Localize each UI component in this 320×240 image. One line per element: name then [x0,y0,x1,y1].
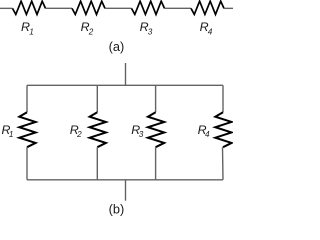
label R4 (parallel) [198,123,210,139]
wire top bus [27,84,223,86]
label R1 (parallel) [2,123,14,139]
wire branch 3 upper [155,85,157,112]
wire branch 2 lower [96,147,98,180]
svg-text:3: 3 [148,27,153,36]
wire branch 3 lower [155,147,157,180]
label R2 (parallel) [70,123,82,139]
wire bottom terminal stub [125,180,127,201]
resistor R1 [13,1,46,14]
svg-text:(b): (b) [109,201,125,216]
wire right lead [224,7,233,9]
svg-text:3: 3 [139,130,144,139]
resistor R4 [191,1,224,14]
wire left lead [0,7,13,9]
resistor R2 (parallel) [90,112,106,147]
wire right branch upper [222,85,224,112]
svg-text:1: 1 [29,27,34,36]
wire left branch upper [26,85,28,112]
resistor R3 [132,1,165,14]
resistor R2 [72,1,105,14]
series circuit (a) [0,1,233,14]
wire R3-R4 [165,7,192,9]
wire top terminal stub [125,63,127,85]
svg-text:1: 1 [9,130,14,139]
label R1 (series) [21,20,34,36]
svg-text:4: 4 [205,130,210,139]
svg-text:(a): (a) [109,39,125,54]
wire left branch lower [26,147,28,180]
wire bottom bus [27,179,223,181]
wire branch 2 upper [96,85,98,112]
resistor R3 (parallel) [148,112,164,147]
svg-text:4: 4 [208,27,213,36]
wire R2-R3 [105,7,132,9]
label R4 (series) [200,20,213,36]
label R3 (parallel) [131,123,143,139]
resistor R1 (parallel) [19,112,35,147]
resistor R4 (parallel) [215,112,231,147]
svg-text:2: 2 [76,130,82,139]
parallel circuit (b) [19,63,231,201]
wire right branch lower [222,147,225,180]
wire R1-R2 [46,7,73,9]
label R2 (series) [81,20,94,36]
svg-text:2: 2 [88,27,94,36]
label R3 (series) [140,20,153,36]
